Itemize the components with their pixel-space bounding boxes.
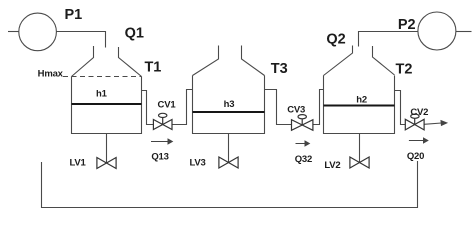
svg-text:Q13: Q13 xyxy=(151,152,168,163)
svg-text:LV1: LV1 xyxy=(69,158,86,169)
svg-text:Hmax: Hmax xyxy=(38,69,64,80)
svg-text:Q1: Q1 xyxy=(125,26,144,42)
svg-text:CV3: CV3 xyxy=(287,105,305,116)
svg-text:h1: h1 xyxy=(96,89,108,100)
svg-text:Q2: Q2 xyxy=(326,32,345,48)
svg-text:T1: T1 xyxy=(144,60,161,76)
svg-text:CV1: CV1 xyxy=(158,100,177,111)
svg-text:T3: T3 xyxy=(271,61,288,77)
svg-text:P2: P2 xyxy=(398,17,416,33)
svg-text:LV2: LV2 xyxy=(324,160,340,171)
svg-text:T2: T2 xyxy=(396,62,413,78)
svg-text:h2: h2 xyxy=(356,95,367,106)
svg-text:LV3: LV3 xyxy=(189,158,205,169)
svg-text:CV2: CV2 xyxy=(410,107,428,118)
svg-text:P1: P1 xyxy=(65,7,83,23)
svg-text:Q20: Q20 xyxy=(407,151,424,162)
svg-text:h3: h3 xyxy=(224,99,235,110)
svg-text:Q32: Q32 xyxy=(295,154,312,165)
